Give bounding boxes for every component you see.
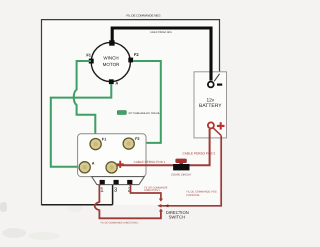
wire: red main positive solenoid + to battery + xyxy=(117,129,209,165)
svg-text:F1: F1 xyxy=(102,137,106,141)
upper throw arrowhead xyxy=(159,199,163,202)
battery negative ring terminal xyxy=(208,82,214,88)
svg-text:CABLE PERSO POS 1: CABLE PERSO POS 1 xyxy=(134,160,166,164)
battery positive ring terminal xyxy=(208,122,214,128)
winch motor M1 xyxy=(91,42,130,81)
wire: green F2 motor to solenoid F2 xyxy=(133,61,161,143)
faint photo smudges xyxy=(0,202,7,212)
solenoid plus sign xyxy=(117,161,124,168)
svg-text:COUPE CIRCUIT: COUPE CIRCUIT xyxy=(171,173,192,176)
svg-text:F1: F1 xyxy=(86,53,91,58)
wire: red direction 1 from pin 1 (hop over ground) to switch lower throw xyxy=(95,185,161,219)
solenoid terminal A xyxy=(79,162,90,173)
svg-text:12v: 12v xyxy=(207,97,215,102)
wire: diagonal lead from positive ring xyxy=(213,128,221,136)
wire: green F1 motor to solenoid F1 (with hop) xyxy=(74,61,96,139)
svg-text:SWITCH: SWITCH xyxy=(169,215,186,220)
motor terminal F2 xyxy=(128,58,133,63)
solenoid terminal F1 xyxy=(90,139,101,150)
svg-text:PRINCIPAL: PRINCIPAL xyxy=(186,194,200,197)
svg-text:A: A xyxy=(115,81,118,86)
solenoid box xyxy=(78,134,146,177)
wire: main positive feed to direction switch pole xyxy=(160,136,221,206)
svg-text:F2: F2 xyxy=(135,137,139,141)
solenoid terminal + xyxy=(106,162,117,173)
svg-text:BATTERY: BATTERY xyxy=(199,103,222,109)
svg-text:CABLE PERSO POS 2: CABLE PERSO POS 2 xyxy=(183,152,216,156)
switch pole arrowhead xyxy=(157,204,161,208)
svg-text:WINCH: WINCH xyxy=(103,56,118,61)
wire: negative control loop (frame) xyxy=(42,20,220,205)
solenoid pin 3 xyxy=(114,180,119,184)
svg-text:DIRECTION 2: DIRECTION 2 xyxy=(144,189,160,192)
motor terminal top xyxy=(109,40,114,45)
svg-text:KIT CABLAGE DU TREUIL: KIT CABLAGE DU TREUIL xyxy=(129,112,161,115)
svg-text:FIL DE COMMANDE NEG: FIL DE COMMANDE NEG xyxy=(127,14,162,18)
motor terminal A xyxy=(109,79,114,84)
motor terminal F1 xyxy=(89,59,94,64)
wire: green A motor to solenoid A xyxy=(51,84,112,167)
battery 12v box xyxy=(194,72,227,138)
legend: green swatch xyxy=(117,111,126,115)
svg-text:MOTOR: MOTOR xyxy=(103,62,120,67)
solenoid pin 2 xyxy=(127,180,132,184)
battery plus sign xyxy=(217,122,225,129)
wire: thick negative cable CABLE PERSO NEG xyxy=(112,28,211,81)
svg-text:F2: F2 xyxy=(134,52,139,57)
fuse COUPE CIRCUIT xyxy=(175,159,186,163)
lower throw arrowhead xyxy=(159,209,163,212)
svg-text:A: A xyxy=(92,161,95,165)
wire: diagonal lead to battery negative ring xyxy=(214,74,219,82)
svg-text:CABLE PERSO NEG: CABLE PERSO NEG xyxy=(150,31,172,34)
solenoid pin 1 xyxy=(100,180,105,184)
battery minus sign xyxy=(217,84,222,86)
wire: red direction 2 from pin 2 to switch upper throw xyxy=(131,185,161,199)
solenoid terminal F2 xyxy=(123,138,134,149)
wire: ground wire from solenoid pin 3 to frame xyxy=(42,185,113,205)
svg-text:FIL DE COMMANDE DIRECTION 1: FIL DE COMMANDE DIRECTION 1 xyxy=(101,222,140,225)
solenoid connector trapezoid xyxy=(92,177,145,185)
